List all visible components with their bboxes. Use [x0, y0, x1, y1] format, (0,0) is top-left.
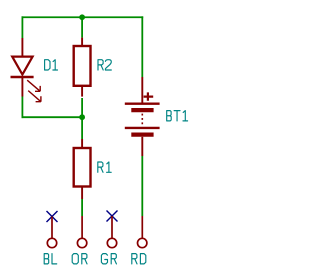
BT1 dotted cell divider — [141, 114, 143, 127]
no-connect flag at BL — [47, 211, 58, 222]
label BT1 — [167, 111, 188, 121]
label RD — [132, 254, 146, 264]
R1 pin 2 — [81, 187, 83, 200]
BT1 short plate 2 — [131, 132, 153, 136]
BT1 short plate 1 — [131, 108, 153, 112]
pin OR — [77, 216, 86, 248]
D1 pin 2 (cathode lead) — [21, 77, 23, 97]
wire: battery negative to RD pin — [141, 156, 143, 216]
R2 pin 1 — [81, 38, 83, 47]
D1 cathode bar — [11, 76, 34, 78]
wire: R2 top stub — [81, 17, 83, 37]
LED D1 — [11, 38, 41, 102]
label BL — [44, 254, 57, 264]
junction at mid node — [79, 114, 85, 120]
resistor R2 — [74, 38, 91, 97]
label R1 — [98, 162, 111, 172]
junction at top node — [79, 14, 85, 20]
label GR — [101, 254, 116, 264]
wire: R1 bottom to OR pin — [81, 199, 83, 216]
label R2 — [98, 60, 111, 70]
BT1 long plate 1 — [125, 102, 160, 104]
D1 emission arrow 2 — [28, 91, 41, 102]
wire: R2 bottom to junction — [81, 98, 83, 117]
R1 pin 1 — [81, 139, 83, 148]
wire: LED cathode vertical — [21, 97, 23, 119]
battery BT1 — [125, 77, 160, 156]
R1 body — [74, 148, 91, 187]
R2 body — [74, 46, 91, 86]
D1 pin 1 (anode lead) — [21, 38, 23, 57]
BT1 pin - (bottom lead) — [141, 137, 143, 156]
BT1 pin + (top lead) — [141, 77, 143, 103]
D1 triangle — [12, 57, 32, 75]
wire: battery positive vertical — [141, 16, 143, 77]
pin RD — [138, 216, 147, 248]
pin GR — [107, 216, 116, 248]
wire: junction to R1 — [81, 117, 83, 139]
wire: top horizontal — [22, 16, 144, 18]
resistor R1 — [74, 139, 91, 199]
BT1 plus sign — [144, 92, 154, 100]
D1 emission arrow 1 — [27, 80, 40, 91]
pin BL — [47, 217, 56, 248]
BT1 long plate 2 — [125, 127, 160, 129]
wire: LED anode vertical — [21, 16, 23, 38]
R2 pin 2 — [81, 86, 83, 97]
no-connect flag at GR — [107, 211, 118, 222]
label D1 — [45, 60, 58, 70]
wire: bottom horizontal — [22, 116, 83, 118]
label OR — [72, 254, 87, 264]
